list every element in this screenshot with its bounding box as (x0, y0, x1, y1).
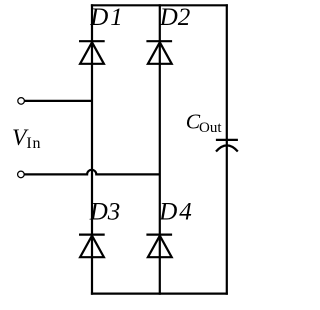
diode D2 (146, 41, 172, 64)
svg-text:D4: D4 (158, 199, 194, 226)
wire: right leg (output branch with capacitor) (226, 4, 228, 295)
svg-text:In: In (26, 135, 41, 152)
label D1 (89, 4, 125, 31)
terminal: upper input (open circle) (18, 98, 25, 105)
terminal: lower input (open circle) (18, 171, 25, 178)
wire: top rail (91, 4, 228, 6)
svg-text:D2: D2 (159, 4, 191, 31)
diode D3 (79, 235, 105, 258)
label D3 (89, 199, 121, 226)
capacitor C_Out (polarized: straight plate + curved plate) (216, 140, 238, 152)
label D2 (159, 4, 191, 31)
wire: upper input lead (25, 100, 92, 102)
wire: left leg (D1/D3 branch) (91, 4, 93, 295)
svg-text:Out: Out (199, 120, 222, 136)
diode D1 (79, 41, 105, 64)
label C_Out (186, 110, 223, 136)
wire: lower input lead with crossover hop at left leg (24, 170, 159, 175)
svg-text:D3: D3 (89, 199, 121, 226)
label V_In (12, 125, 41, 152)
wire: middle leg (D2/D4 branch) (159, 4, 161, 295)
diode D4 (146, 235, 172, 258)
label D4 (158, 199, 194, 226)
svg-text:D1: D1 (89, 4, 125, 31)
wire: bottom rail (91, 293, 228, 295)
